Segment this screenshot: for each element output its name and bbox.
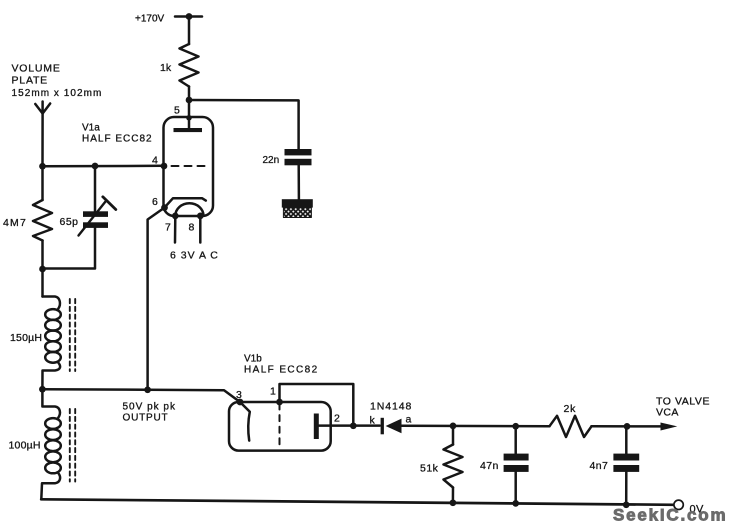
svg-text:22n: 22n	[263, 155, 280, 166]
wire 51k to bottom rail	[452, 488, 455, 503]
svg-text:1k: 1k	[160, 62, 172, 74]
svg-text:4: 4	[152, 155, 158, 167]
ground hatched block	[283, 208, 311, 218]
junction pin 7	[172, 213, 179, 220]
node output junction	[39, 386, 46, 393]
svg-text:a: a	[406, 414, 412, 426]
wire 65p branch down	[94, 166, 97, 212]
svg-text:65p: 65p	[60, 216, 79, 228]
wire output node to V1b pin 3	[42, 389, 240, 402]
inductor 100uH core dashed lines	[69, 409, 71, 482]
trimmer 65p arrow	[79, 202, 106, 236]
junction 51k top	[450, 423, 457, 430]
svg-text:HALF ECC82: HALF ECC82	[82, 134, 153, 145]
junction 4n7 bottom	[623, 501, 630, 508]
terminal 0V circle	[674, 500, 683, 509]
capacitor 22n bottom lead	[297, 165, 300, 199]
junction at +170V	[186, 13, 193, 20]
svg-text:50V pk pk: 50V pk pk	[123, 402, 176, 413]
junction 47n top	[512, 423, 519, 430]
wire antenna down to grid node	[41, 113, 44, 166]
V1a anode lead	[188, 118, 191, 129]
junction 4n7 top	[624, 423, 631, 430]
svg-text:OUTPUT: OUTPUT	[123, 413, 169, 424]
svg-text:VOLUME: VOLUME	[12, 63, 61, 75]
wire resistor 1k to node B	[188, 87, 191, 101]
svg-text:V1a: V1a	[82, 123, 100, 134]
V1a anode plate	[174, 128, 203, 132]
junction pin6 feed on output wire	[144, 386, 151, 393]
inductor 150uH loops	[45, 309, 61, 320]
tube V1b envelope	[229, 402, 331, 451]
junction at 65p branch	[92, 163, 99, 170]
junction 47n bottom	[512, 500, 519, 507]
junction pin 1	[276, 399, 283, 406]
node B junction	[186, 97, 193, 104]
inductor 150uH exit	[42, 363, 60, 390]
diode 1N4148 cathode bar	[381, 418, 384, 435]
wire 4M7 to junction	[41, 241, 44, 270]
svg-text:HALF ECC82: HALF ECC82	[244, 365, 319, 376]
resistor 51k leads	[452, 426, 455, 445]
wire grid node: antenna to pin 4	[43, 165, 164, 168]
svg-text:2k: 2k	[564, 403, 577, 415]
junction at antenna column	[39, 163, 46, 170]
capacitor 4n7 bottom lead	[625, 472, 628, 505]
svg-text:VCA: VCA	[656, 407, 679, 419]
inductor 150uH core dashed lines	[69, 299, 71, 371]
inductor 100uH entry	[42, 389, 60, 418]
svg-text:PLATE: PLATE	[12, 75, 48, 87]
wire 2k resistor to output arrow	[592, 425, 661, 428]
junction pin 4	[161, 163, 168, 170]
svg-text:6 3V A C: 6 3V A C	[170, 250, 219, 262]
trimmer capacitor 65p bottom plate	[83, 222, 108, 228]
svg-text:7: 7	[165, 222, 171, 234]
svg-text:47n: 47n	[480, 460, 499, 472]
junction pin 5	[186, 115, 192, 121]
junction pin 8	[197, 213, 204, 220]
pin 7 wire	[174, 216, 177, 243]
antenna (volume plate) symbol	[35, 102, 50, 114]
trimmer capacitor 65p top plate	[83, 211, 108, 217]
svg-text:1: 1	[270, 386, 276, 398]
arrow to valve VCA	[661, 423, 678, 431]
svg-text:V1b: V1b	[244, 354, 262, 365]
junction below 4M7	[39, 266, 46, 273]
svg-text:8: 8	[189, 222, 195, 234]
resistor 2k	[550, 416, 592, 437]
junction pin 3	[237, 399, 244, 406]
wire cathode to diode	[319, 424, 380, 427]
junction 51k bottom	[450, 499, 457, 506]
svg-text:k: k	[370, 415, 376, 427]
capacitor 47n top plate	[504, 454, 529, 461]
capacitor 47n bottom lead	[514, 472, 517, 504]
capacitor 47n bottom plate	[504, 465, 529, 472]
svg-text:4M7: 4M7	[3, 217, 27, 229]
capacitor 4n7 top plate	[613, 454, 639, 461]
svg-text:3: 3	[236, 389, 242, 401]
wire from +170V to resistor R 1k	[188, 17, 191, 45]
svg-text:152mm x 102mm: 152mm x 102mm	[12, 88, 103, 99]
ground solid bar	[282, 199, 313, 207]
wire bottom rail	[41, 499, 674, 505]
pin 8 wire	[199, 216, 202, 243]
wire V1a pin 6 down to output wire	[148, 208, 165, 390]
wire grid node to resistor 4M7	[41, 166, 44, 200]
svg-text:51k: 51k	[420, 463, 439, 475]
wire diode to 2k resistor	[402, 425, 550, 428]
V1b grid dashed line	[279, 404, 281, 447]
inductor 150uH entry	[43, 297, 60, 309]
diode 1N4148 triangle	[386, 419, 402, 434]
svg-text:+170V: +170V	[135, 14, 165, 25]
capacitor 22n top plate	[285, 149, 312, 155]
svg-text:100µH: 100µH	[9, 440, 41, 452]
capacitor 4n7 top lead	[625, 426, 628, 453]
trimmer 65p arrow T-bar	[103, 197, 116, 210]
capacitor 4n7 bottom plate	[613, 465, 639, 472]
wire pin 1 feedback loop to cathode line	[280, 384, 354, 426]
wire junction to inductor 150uH	[41, 269, 44, 297]
svg-text:150µH: 150µH	[10, 332, 42, 344]
V1a heater line	[165, 198, 206, 207]
junction pin 6	[161, 204, 168, 211]
resistor 4M7	[33, 200, 52, 241]
svg-text:SeekIC.com: SeekIC.com	[613, 506, 727, 525]
inductor 100uH exit	[41, 473, 60, 499]
svg-text:6: 6	[152, 196, 158, 208]
svg-text:4n7: 4n7	[590, 460, 609, 472]
tube V1a envelope	[164, 117, 214, 216]
capacitor 47n top lead	[514, 426, 517, 454]
V1b anode curve	[240, 402, 250, 441]
node +170V supply wire	[175, 15, 202, 18]
V1a grid dashed line	[172, 165, 208, 167]
wire node B to pin 5	[188, 100, 191, 118]
V1a cathode dome	[175, 203, 203, 216]
resistor 51k	[444, 445, 463, 488]
resistor 1k	[180, 44, 199, 87]
svg-text:2: 2	[334, 413, 340, 425]
wire node B to 22n branch	[189, 100, 299, 149]
inductor 100uH loops	[45, 418, 61, 429]
wire 65p bottom to junction	[43, 228, 96, 269]
capacitor 22n bottom plate	[285, 159, 312, 166]
junction feedback-cathode	[350, 422, 357, 429]
V1b cathode bar	[314, 414, 319, 440]
svg-text:5: 5	[174, 105, 180, 117]
svg-text:1N4148: 1N4148	[370, 401, 412, 413]
